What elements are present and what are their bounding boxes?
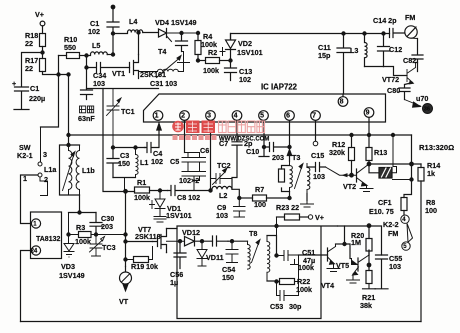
svg-text:VD11: VD11 — [206, 253, 224, 262]
svg-text:C14 2p: C14 2p — [373, 16, 397, 25]
capacitor C14 2p — [390, 29, 405, 38]
svg-text:150: 150 — [222, 273, 234, 282]
capacitor chip 63nF — [81, 90, 93, 100]
pin 7 — [311, 111, 321, 121]
capacitor C15 103 — [307, 163, 326, 172]
trimmer TC1 — [107, 89, 122, 148]
pin 1 — [153, 111, 163, 121]
capacitor C1 220u electrolytic — [14, 87, 29, 110]
svg-text:E10. 75: E10. 75 — [369, 207, 394, 216]
wire (rail y=225.5 to C55) — [338, 226, 382, 255]
svg-text:100k: 100k — [298, 263, 314, 272]
svg-text:L2: L2 — [219, 191, 227, 200]
output u70 arrow — [405, 100, 421, 108]
svg-text:L1: L1 — [140, 158, 148, 167]
svg-text:550: 550 — [64, 43, 76, 52]
svg-text:VD3: VD3 — [61, 262, 75, 271]
diode VD2 1SV101 varactor — [226, 34, 236, 68]
wire (node to L4) — [113, 33, 128, 35]
svg-text:1SV149: 1SV149 — [59, 271, 85, 280]
svg-text:203: 203 — [101, 222, 113, 231]
resistor R20 1M — [367, 224, 371, 228]
svg-text:102: 102 — [88, 27, 100, 36]
svg-text:24: 24 — [31, 249, 38, 255]
svg-text:C82: C82 — [403, 56, 416, 65]
capacitor C55 103 — [375, 255, 388, 289]
node — [85, 54, 88, 57]
diode VD12 — [185, 237, 213, 246]
inductor L5 — [91, 52, 108, 55]
svg-text:V+: V+ — [315, 213, 324, 222]
transistor VT7 2SK118 FET — [126, 191, 167, 267]
svg-text:6: 6 — [286, 113, 290, 120]
resistor R23 22 — [277, 216, 285, 218]
svg-text:2: 2 — [44, 175, 48, 184]
node — [85, 66, 88, 69]
svg-text:C8 102: C8 102 — [177, 193, 200, 202]
wire (pin3 drop) — [210, 121, 212, 191]
capacitor C10 203 — [264, 143, 290, 152]
svg-text:2SK161: 2SK161 — [140, 70, 166, 79]
svg-text:100k: 100k — [203, 66, 219, 75]
pin 4 — [232, 111, 242, 121]
svg-text:CF1: CF1 — [378, 198, 392, 207]
svg-text:VD12: VD12 — [182, 228, 200, 237]
svg-text:FM: FM — [405, 13, 415, 22]
varicap drive VT — [125, 267, 127, 272]
svg-text:R19: R19 — [131, 262, 144, 271]
transformer T8 secondary — [267, 236, 270, 282]
trimmer TC3 — [90, 235, 105, 257]
node — [57, 73, 60, 76]
wire — [43, 72, 69, 75]
wire (osc out row y=240.7) — [167, 240, 185, 242]
svg-text:R23 22: R23 22 — [276, 203, 299, 212]
svg-text:C80: C80 — [387, 86, 400, 95]
capacitor C56 1u — [174, 241, 186, 268]
pin 1 (TA8132) — [31, 219, 40, 228]
resonator CF1 E10.75 — [401, 198, 407, 211]
wire (main y=190 row) — [126, 190, 135, 192]
wire pin5 drop — [259, 121, 269, 157]
svg-text:V+: V+ — [35, 10, 44, 19]
wire pin8 up to C11 — [342, 94, 344, 96]
pin 6 — [285, 111, 295, 121]
resistor R1 100k — [135, 187, 150, 193]
wire (osc top rail y=212) — [69, 212, 97, 214]
node C12 tap — [382, 32, 385, 35]
wire (C5/C6 feed from pin2) — [184, 121, 186, 153]
resistor R19 10k — [134, 257, 149, 263]
svg-text:1SV101: 1SV101 — [166, 211, 192, 220]
svg-text:TA8132: TA8132 — [36, 236, 60, 243]
wire + node — [180, 31, 183, 34]
wire (rail corner down to CF1) — [404, 135, 412, 198]
resistor R3 100k — [79, 232, 92, 238]
svg-text:R3: R3 — [76, 223, 85, 232]
switch K2-2 contact 4 — [401, 215, 409, 223]
capacitor C3 150 — [107, 148, 119, 178]
IC TA8132 body — [31, 212, 62, 259]
diode VD11 varactor — [197, 241, 207, 266]
ground (VD1) — [154, 219, 166, 222]
capacitor C30 203 — [90, 213, 102, 235]
wire (L5 right to C1-102 column) — [107, 54, 113, 56]
capacitor C6 — [194, 153, 206, 191]
svg-text:L5: L5 — [92, 41, 100, 50]
svg-text:103: 103 — [313, 172, 325, 181]
svg-text:C6: C6 — [200, 146, 209, 155]
resistor R14 1k — [420, 164, 422, 168]
capacitor C12 — [378, 34, 390, 67]
svg-text:5: 5 — [260, 113, 264, 120]
svg-text:VT5: VT5 — [336, 261, 349, 270]
svg-text:VT: VT — [119, 297, 129, 306]
pin 8 — [338, 97, 348, 107]
svg-text:K2-2: K2-2 — [383, 220, 399, 229]
wire to R7 — [239, 197, 252, 199]
wire (TC1 column down) — [103, 89, 126, 192]
svg-text:u70: u70 — [416, 94, 428, 103]
wire (y=163.5 row to R14) — [369, 163, 421, 165]
wire pin6 drop with arrow into T3 — [287, 121, 291, 162]
capacitor C54 150 — [226, 241, 238, 262]
transistor VT5 — [357, 258, 359, 271]
svg-text:T3: T3 — [292, 153, 300, 162]
wire (down from L5 node to chip cap) — [86, 56, 88, 90]
diode VD4 1SV149 — [159, 29, 167, 38]
svg-text:7: 7 — [312, 113, 316, 120]
svg-text:22: 22 — [25, 64, 33, 73]
svg-text:4: 4 — [234, 113, 238, 120]
capacitor C53 30p — [277, 291, 292, 301]
wire (VT5 collector) — [368, 250, 370, 255]
ground (VT4) — [327, 263, 340, 272]
svg-text:100: 100 — [425, 206, 437, 215]
svg-text:2SK118: 2SK118 — [135, 232, 161, 241]
pin 2 — [180, 111, 190, 121]
wire (left drop from tank to y190 row) — [124, 178, 126, 191]
capacitor C80 — [399, 83, 413, 100]
diode VD3 1SV149 varactor — [64, 235, 74, 258]
svg-text:8: 8 — [340, 99, 344, 106]
svg-text:TC2: TC2 — [217, 161, 231, 170]
op-amp U1 IC IAP722 body — [144, 94, 386, 122]
svg-text:C15: C15 — [311, 151, 324, 160]
svg-text:L1a: L1a — [44, 165, 57, 174]
svg-text:2: 2 — [181, 113, 185, 120]
svg-text:1µ: 1µ — [170, 278, 178, 287]
resistor R2 — [196, 59, 199, 62]
resistor R4 — [196, 31, 199, 34]
wire (pin24 to bottom rail) — [21, 251, 32, 322]
svg-text:TC3: TC3 — [102, 243, 116, 252]
wire pin1 arrow from tank — [157, 123, 161, 148]
transformer T3 left coil — [290, 162, 293, 192]
transformer T8 primary — [248, 241, 251, 269]
resistor R22 100k — [275, 280, 278, 283]
svg-text:3: 3 — [43, 150, 47, 159]
svg-text:1k: 1k — [427, 169, 435, 178]
wire (node up) — [68, 75, 70, 146]
wire (L3/C12 common bottom) — [365, 66, 384, 68]
inductor L4 — [128, 30, 143, 33]
pin 3 — [206, 111, 216, 121]
terminal V+ (R23) — [308, 215, 312, 219]
svg-text:C1: C1 — [30, 84, 39, 93]
ground (T3) — [301, 201, 314, 208]
svg-text:C12: C12 — [389, 45, 402, 54]
wire (L1b bottom down to osc section) — [79, 195, 81, 213]
inductor L1a (variable) — [69, 145, 72, 195]
svg-text:150: 150 — [118, 159, 130, 168]
node — [67, 73, 70, 76]
inductor L1b — [76, 145, 79, 195]
svg-text:63nF: 63nF — [78, 114, 95, 123]
inductor L1 (vertical) — [136, 148, 139, 178]
node — [67, 143, 70, 146]
wire (C31 line along y=88) — [87, 88, 159, 90]
resistor R17 — [40, 59, 46, 72]
svg-text:R13: R13 — [374, 148, 387, 157]
svg-text:FM: FM — [388, 229, 398, 238]
svg-text:320k: 320k — [329, 148, 345, 157]
tank bus — [113, 147, 145, 149]
svg-text:C10: C10 — [246, 147, 259, 156]
capacitor C7 2p (pin4) — [232, 121, 242, 178]
resistor R7 100 — [253, 195, 267, 201]
capacitor C9 103 — [234, 198, 246, 217]
svg-text:9: 9 — [366, 110, 370, 117]
svg-text:VT4: VT4 — [321, 281, 334, 290]
svg-text:IC IAP722: IC IAP722 — [261, 83, 298, 92]
svg-text:103: 103 — [389, 262, 401, 271]
capacitor C4 102 — [145, 143, 159, 153]
transformer T3 right coil — [307, 164, 310, 194]
wire (R10 left drop + switch feed) — [41, 56, 59, 128]
capacitor C5 — [182, 153, 194, 177]
oscillator box — [177, 226, 338, 319]
wire (osc left drop) — [69, 213, 79, 235]
resistor R10 — [59, 55, 67, 57]
inductor T4 (variable) — [153, 52, 190, 72]
svg-text:VT1: VT1 — [112, 69, 125, 78]
wire (R23 left drop to T8) — [276, 217, 278, 236]
svg-text:C5: C5 — [170, 157, 179, 166]
svg-text:30p: 30p — [289, 302, 302, 311]
svg-text:38k: 38k — [360, 301, 372, 310]
node C11 tap — [342, 32, 345, 35]
svg-text:R13:320Ω: R13:320Ω — [419, 143, 454, 152]
capacitor C11 15p — [337, 34, 350, 95]
resistor R18 — [40, 34, 46, 47]
svg-text:203: 203 — [272, 153, 284, 162]
svg-text:22: 22 — [25, 39, 33, 48]
capacitor C51 — [277, 251, 299, 265]
pin 5 — [259, 111, 269, 121]
wire (T8 sec top to C51) — [267, 236, 277, 256]
wire (long mid rail y=136) — [69, 134, 412, 136]
terminal (pin7 test point) — [315, 121, 317, 141]
terminal V+ (top left) — [40, 21, 45, 26]
node L3 tap — [363, 32, 366, 35]
svg-text:L4: L4 — [129, 17, 137, 26]
wire — [42, 47, 44, 59]
svg-text:100k: 100k — [75, 237, 91, 246]
switch SW K2-1 — [38, 162, 42, 166]
inductor L3 (vertical) — [365, 34, 368, 67]
pin 9 — [364, 108, 374, 118]
svg-text:VD2: VD2 — [238, 39, 252, 48]
svg-text:VT72: VT72 — [382, 75, 399, 84]
wire pin9 drop — [368, 118, 370, 148]
transformer T3 core arrow — [295, 164, 304, 189]
capacitor C34 (series in gate line) — [87, 63, 130, 73]
antenna FM — [405, 26, 417, 38]
svg-text:1: 1 — [23, 174, 27, 183]
resistor (damping, parallel T3) — [282, 166, 290, 192]
capacitor C82 — [412, 39, 423, 72]
wire (VT7 drain to T8 row) — [167, 229, 178, 253]
svg-text:C31 103: C31 103 — [150, 79, 177, 88]
transistor VT2 — [356, 169, 358, 182]
capacitor (VD4 output) — [176, 33, 188, 52]
svg-text:1SV101: 1SV101 — [237, 48, 263, 57]
switch K2-2 arm — [407, 223, 413, 242]
node — [111, 53, 114, 56]
svg-text:102×2: 102×2 — [179, 176, 199, 185]
wire — [42, 26, 44, 34]
svg-text:T8: T8 — [249, 229, 257, 238]
svg-text:103: 103 — [216, 211, 228, 220]
wire (VT1 drain up to L4 line) — [138, 34, 140, 55]
svg-text:L1b: L1b — [82, 166, 95, 175]
svg-text:VD4 1SV149: VD4 1SV149 — [155, 18, 197, 27]
svg-text:L3: L3 — [350, 46, 358, 55]
svg-text:10k: 10k — [146, 262, 158, 271]
transistor VT4 — [327, 248, 329, 261]
node — [229, 59, 232, 62]
svg-text:3: 3 — [207, 113, 211, 120]
svg-text:R2: R2 — [208, 48, 217, 57]
node — [238, 196, 241, 199]
svg-text:102: 102 — [239, 75, 251, 84]
transistor VT72 — [407, 63, 416, 84]
svg-text:K2-1: K2-1 — [17, 151, 33, 160]
svg-text:R1: R1 — [137, 178, 146, 187]
svg-text:+: + — [12, 79, 16, 88]
wire C15 to VT2 base arrow — [326, 167, 357, 175]
svg-text:VT2: VT2 — [343, 182, 356, 191]
capacitor C1 102 (antenna stub) — [107, 7, 119, 55]
wire (top bus from VD2 to FM) — [231, 34, 390, 40]
ground (VT5) — [347, 274, 360, 283]
capacitor C13 102 — [225, 68, 237, 81]
terminal 36 — [423, 104, 433, 114]
svg-text:100: 100 — [254, 200, 266, 209]
svg-text:1: 1 — [155, 113, 159, 120]
inductor L2 — [212, 186, 232, 189]
diode VD1 1SV101 varactor — [154, 191, 166, 217]
transformer T8 core arrow — [252, 240, 261, 263]
wire — [22, 53, 43, 87]
wire (bottom rail) — [21, 321, 422, 323]
resistor R13 — [366, 148, 372, 161]
wire — [143, 32, 159, 34]
svg-text:15p: 15p — [318, 51, 331, 60]
wire — [80, 55, 91, 57]
svg-text:36: 36 — [424, 106, 430, 112]
svg-text:1M: 1M — [351, 238, 361, 247]
label chip 63nF — [80, 106, 94, 113]
svg-text:100k: 100k — [134, 193, 150, 202]
resistor R21 38k — [366, 271, 372, 284]
svg-text:103: 103 — [93, 79, 105, 88]
resistor R12 320k — [351, 135, 353, 148]
capacitor C8 102 — [168, 186, 211, 196]
svg-text:C53: C53 — [270, 302, 283, 311]
capacitor (coupling to T8) — [213, 236, 229, 246]
pin 24 (TA8132) — [31, 246, 40, 255]
wire (C51 out to VT4 base) — [299, 254, 328, 256]
wire T3 bottom / ground — [290, 192, 308, 201]
svg-text:R7: R7 — [255, 185, 264, 194]
wire (tank bottoms) — [113, 177, 136, 179]
transistor VT1 FET — [130, 55, 139, 79]
svg-text:T4: T4 — [158, 47, 166, 56]
wire (VT4 collector up to rail) — [336, 243, 345, 245]
ground (VT2 emitter) — [360, 185, 373, 192]
svg-text:100k: 100k — [296, 285, 312, 294]
discriminator transformer (hatched) — [369, 164, 379, 173]
svg-text:102: 102 — [151, 157, 163, 166]
svg-text:TC1: TC1 — [121, 107, 135, 116]
node — [41, 51, 44, 54]
transformer L1a/L1b left rail — [60, 145, 80, 195]
svg-text:WWW.DZSC.COM: WWW.DZSC.COM — [219, 137, 269, 143]
svg-text:220µ: 220µ — [29, 94, 45, 103]
switch K2-2 contact 5 — [402, 242, 410, 250]
trimmer TC2 — [211, 168, 233, 185]
